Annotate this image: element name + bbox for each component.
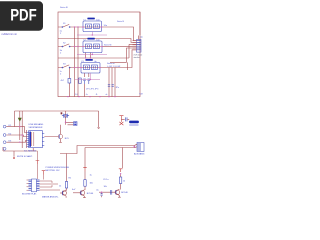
svg-text:MASSE ANSCHL.: MASSE ANSCHL. xyxy=(42,195,59,198)
svg-text:stecker: stecker xyxy=(134,56,141,59)
svg-text:BC546: BC546 xyxy=(121,192,128,194)
svg-text:TxE: TxE xyxy=(139,94,143,96)
svg-text:NETZTEIL 15V: NETZTEIL 15V xyxy=(46,170,61,172)
svg-text:Seite M: Seite M xyxy=(104,44,111,47)
svg-text:JP1 JP2 JP3: JP1 JP2 JP3 xyxy=(86,88,99,90)
svg-text:MUTE SCHALT.: MUTE SCHALT. xyxy=(17,155,33,158)
svg-text:IC1 NE5532: IC1 NE5532 xyxy=(24,150,37,152)
svg-text:AUSGANG: AUSGANG xyxy=(134,153,145,156)
svg-text:C9 1u: C9 1u xyxy=(103,179,109,181)
svg-text:POWER VERSORGUNG: POWER VERSORGUNG xyxy=(46,167,70,169)
svg-text:BC546: BC546 xyxy=(87,193,94,195)
svg-text:Seite 40: Seite 40 xyxy=(60,6,69,9)
svg-text:LINE EINGANG: LINE EINGANG xyxy=(29,123,44,126)
svg-text:PDF: PDF xyxy=(10,6,37,24)
svg-text:L,GR 1 /U,GR: L,GR 1 /U,GR xyxy=(107,66,121,68)
svg-text:Seite B: Seite B xyxy=(117,20,124,23)
svg-text:Seite xx: Seite xx xyxy=(107,62,116,65)
svg-text:BUCHSE PLAT.: BUCHSE PLAT. xyxy=(22,193,37,196)
svg-text:VERSTARKER: VERSTARKER xyxy=(29,126,43,129)
svg-text:mAlfa=mm nn: mAlfa=mm nn xyxy=(2,33,18,36)
